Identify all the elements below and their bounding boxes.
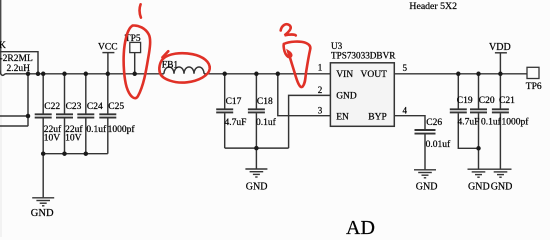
svg-text:C26: C26 [426,118,442,128]
svg-text:VOUT: VOUT [361,70,388,80]
svg-text:C24: C24 [87,102,103,112]
svg-text:VIN: VIN [336,70,353,80]
svg-text:C22: C22 [44,102,60,112]
svg-text:C19: C19 [457,96,473,106]
svg-text:VDD: VDD [489,42,511,53]
svg-text:GND: GND [246,181,268,192]
svg-text:C21: C21 [499,96,515,106]
svg-text:0.1uf: 0.1uf [86,124,107,135]
svg-text:C20: C20 [479,96,495,106]
svg-text:2: 2 [318,85,323,95]
svg-text:C18: C18 [257,97,273,107]
svg-text:4.7uF: 4.7uF [458,118,480,128]
svg-text:U3: U3 [331,41,343,51]
svg-text:10V: 10V [65,133,82,143]
svg-text:GND: GND [491,181,513,192]
svg-text:FB1: FB1 [162,61,179,71]
svg-text:5: 5 [403,63,408,73]
svg-text:0.1uf: 0.1uf [256,117,277,128]
svg-text:3: 3 [318,105,323,115]
svg-text:2.2uH: 2.2uH [7,64,31,74]
svg-text:-2R2ML: -2R2ML [0,54,33,64]
svg-text:C23: C23 [66,102,82,112]
svg-text:1000pf: 1000pf [502,117,530,128]
svg-text:GND: GND [336,92,357,102]
svg-text:TPS73033DBVR: TPS73033DBVR [331,51,396,61]
svg-text:VCC: VCC [98,43,118,53]
svg-text:4.7uF: 4.7uF [225,118,247,128]
svg-text:K: K [0,41,6,51]
svg-text:1: 1 [318,63,323,73]
svg-text:C25: C25 [108,102,124,112]
svg-text:0.01uf: 0.01uf [426,139,451,150]
svg-text:C17: C17 [226,97,242,107]
svg-text:AD: AD [346,217,375,237]
svg-text:4: 4 [403,106,408,116]
svg-text:GND: GND [416,181,438,192]
svg-text:Header 5X2: Header 5X2 [409,1,457,12]
svg-text:TP6: TP6 [526,82,542,92]
svg-text:BYP: BYP [368,112,386,122]
svg-text:GND: GND [468,181,490,192]
svg-text:10V: 10V [44,133,61,143]
svg-text:GND: GND [31,208,54,219]
svg-text:0.1uf: 0.1uf [481,117,502,128]
svg-text:EN: EN [336,112,349,122]
svg-text:1000pf: 1000pf [108,124,136,135]
